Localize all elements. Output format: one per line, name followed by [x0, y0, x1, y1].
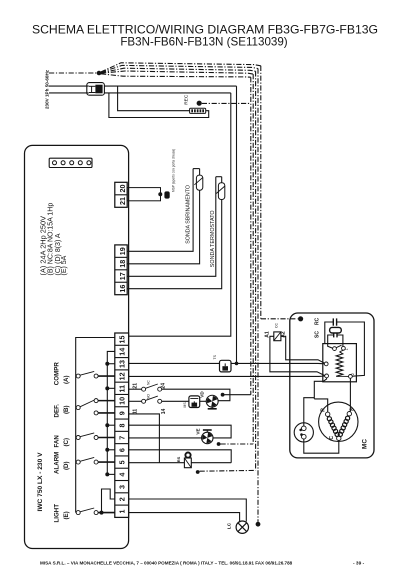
svg-text:DEF.: DEF.	[54, 404, 61, 418]
wire earth bundle line 1 to MC	[101, 63, 261, 72]
defrost heater RS	[184, 458, 191, 468]
connector J1 5-pin	[49, 158, 92, 167]
svg-text:12: 12	[118, 372, 127, 380]
wire earth bundle line 5 to VD	[101, 74, 251, 77]
wire terminal 9 drop to RS	[129, 414, 160, 463]
svg-text:11: 11	[118, 385, 127, 393]
svg-text:17: 17	[118, 272, 127, 280]
aux contact 11-14	[142, 399, 146, 403]
svg-text:10: 10	[118, 397, 127, 405]
svg-text:RC: RC	[315, 317, 321, 325]
svg-text:IWC 750 LX - 230 V: IWC 750 LX - 230 V	[37, 452, 44, 512]
relay terminal 6	[325, 374, 329, 378]
svg-text:6: 6	[118, 448, 127, 452]
node bus2 junction to terminal 4	[105, 472, 109, 476]
svg-text:2: 2	[118, 497, 127, 501]
node bus2 junction to terminal 11	[105, 386, 109, 390]
svg-text:LC: LC	[227, 522, 232, 529]
wire terminal 11 to aux contact 21	[129, 388, 142, 390]
svg-text:ALARM: ALARM	[54, 452, 61, 474]
svg-text:14: 14	[161, 409, 167, 415]
svg-text:8: 8	[118, 424, 127, 428]
svg-text:VD: VD	[200, 391, 205, 398]
svg-text:5: 5	[118, 460, 127, 464]
svg-text:1: 1	[118, 510, 127, 514]
wire MS to fan VD	[200, 400, 207, 402]
node fan VD earth stud	[221, 393, 225, 397]
svg-text:SONDA TERMOSTATO: SONDA TERMOSTATO	[210, 210, 216, 267]
svg-text:COMPR: COMPR	[54, 362, 61, 386]
node REC earth stud	[197, 101, 202, 106]
aux contact 21-24	[142, 387, 146, 391]
svg-text:NO: NO	[147, 394, 151, 399]
start relay KR box	[323, 344, 357, 382]
wire earth branch RS	[200, 469, 256, 472]
svg-text:1: 1	[345, 348, 349, 350]
resistor REC condensate heater	[190, 108, 206, 113]
svg-text:MC: MC	[362, 439, 369, 449]
svg-text:FB3N-FB6N-FB13N (SE113039): FB3N-FB6N-FB13N (SE113039)	[120, 36, 287, 49]
svg-text:FAN: FAN	[54, 435, 61, 448]
wire coil A2 leg	[281, 336, 325, 363]
defrost heater RS thermal fuse ring	[185, 453, 190, 458]
relay contact terminals	[333, 347, 337, 351]
node bus2 junction to terminal 6	[105, 448, 109, 452]
relay terminal 2	[349, 375, 353, 379]
relay contact ALARM (D)	[76, 460, 80, 464]
svg-text:S: S	[349, 407, 355, 411]
fan motor VD	[206, 395, 218, 407]
winding S-C	[345, 416, 349, 420]
wire terminal 18 to probe	[127, 190, 199, 264]
svg-text:16: 16	[118, 285, 127, 293]
wire mains L to right	[104, 85, 236, 87]
svg-text:(B): (B)	[63, 405, 70, 414]
svg-text:TS: TS	[213, 354, 217, 359]
node MC earth stud	[298, 316, 303, 321]
capacitor RC	[332, 318, 334, 325]
svg-text:LIGHT: LIGHT	[54, 504, 61, 523]
svg-text:NC: NC	[147, 380, 151, 385]
relay contact COMPR (A)	[76, 374, 80, 378]
svg-text:2: 2	[351, 373, 355, 375]
svg-text:18: 18	[118, 260, 127, 268]
svg-text:(E) 5A: (E) 5A	[61, 255, 68, 275]
winding R-C	[327, 417, 331, 421]
wire earth bundle line 3 to RS	[101, 68, 256, 73]
node RS earth stud	[196, 470, 200, 474]
node light contact junction	[100, 511, 104, 515]
svg-text:MS: MS	[183, 402, 187, 408]
wire terminal 13 to start relay	[129, 362, 220, 364]
svg-text:9: 9	[118, 411, 127, 415]
wire earth bundle line 4 to VE	[101, 71, 253, 74]
node mains L junction	[235, 362, 239, 366]
svg-text:230V 1Ph 50-60Hz: 230V 1Ph 50-60Hz	[45, 69, 50, 109]
fan VE stand	[206, 430, 208, 432]
svg-text:MISA S.R.L. – VIA MONACHELLE: MISA S.R.L. – VIA MONACHELLE VECCHIA, 7 …	[40, 561, 293, 566]
probe SONDA TERMOSTATO thermistor	[216, 176, 222, 178]
wire RS bottom	[129, 462, 232, 464]
wire SC right to relay	[337, 335, 343, 346]
door microswitch MSP cable bar	[127, 188, 160, 201]
svg-text:MSP (aperto con porta chiusa): MSP (aperto con porta chiusa)	[171, 149, 175, 192]
node earth bundle end stud	[256, 522, 261, 527]
wire relay 2 to S winding	[349, 378, 351, 411]
svg-text:REC: REC	[183, 94, 189, 105]
wire mains N to right	[104, 92, 230, 94]
wire earth from mains	[49, 72, 99, 74]
svg-text:- 39 -: - 39 -	[353, 561, 365, 567]
node bus2 junction to terminal 8	[105, 423, 109, 427]
wire overload to C winding	[304, 439, 339, 453]
svg-text:4: 4	[118, 473, 127, 477]
svg-text:(A) 24A 2Hp 250V: (A) 24A 2Hp 250V	[38, 216, 47, 276]
wire aux 24 to fan VD loop	[162, 389, 230, 401]
wire light junction to terminal 2	[102, 489, 115, 513]
wire branch L down to heater	[118, 86, 190, 111]
wire terminal 16 to probe	[127, 200, 222, 289]
svg-text:21: 21	[118, 197, 127, 205]
terminal block 16-17-18-19	[115, 245, 127, 295]
svg-text:SC: SC	[315, 331, 321, 338]
svg-text:(E): (E)	[63, 511, 70, 519]
svg-text:11: 11	[132, 409, 138, 415]
wire terminal 1 to lamp	[129, 513, 240, 523]
node bus2 junction to terminal 13	[105, 362, 109, 366]
capacitor SC electrolytic can	[330, 327, 342, 333]
wire aux 14 to capacitor MS	[162, 400, 189, 402]
wire terminal 8 fan VE loop	[129, 425, 232, 438]
compressor motor windings	[319, 402, 358, 441]
thermal switch TS on compressor line	[220, 360, 232, 372]
wire terminal 10 to aux contact 11	[129, 400, 142, 402]
relay contact DEF (B) changeover	[76, 406, 80, 410]
wire terminal 17 to probe	[127, 177, 216, 277]
relay coil zigzag	[336, 352, 343, 377]
svg-text:(C): (C)	[63, 438, 70, 447]
svg-text:15: 15	[118, 335, 127, 343]
svg-text:CC: CC	[274, 323, 278, 328]
svg-text:(B) NC:8A NO:15A 1Hp: (B) NC:8A NO:15A 1Hp	[48, 203, 55, 276]
fan VD stand	[211, 407, 213, 409]
wire terminal 19 to probe	[127, 169, 193, 252]
fan motor VE	[202, 432, 214, 444]
wire terminal 12 to start relay	[129, 375, 319, 377]
relay contact FAN (C)	[76, 435, 80, 439]
svg-text:21: 21	[132, 383, 138, 389]
contactor coil CC A1-A2	[274, 332, 281, 341]
svg-text:(D): (D)	[63, 461, 70, 470]
svg-text:3: 3	[118, 485, 127, 489]
wire terminal 6 RS loop	[129, 450, 232, 463]
terminal strip 1-15	[115, 333, 129, 517]
svg-text:14: 14	[118, 348, 127, 356]
wire earth branch REC	[202, 102, 251, 104]
svg-text:SONDA SBRINAMENTO: SONDA SBRINAMENTO	[185, 185, 191, 244]
wire mains L drop to terminal-13 line	[236, 86, 238, 363]
wire SC left to relay	[328, 335, 334, 348]
wire earth branch MC	[261, 318, 298, 320]
controller IWC 750 LX board outline	[25, 145, 129, 548]
terminal block 20-21	[115, 182, 127, 207]
wire RC left	[325, 322, 334, 344]
relay terminal 5	[324, 362, 328, 366]
node MSP dot	[158, 192, 162, 196]
svg-text:RS: RS	[176, 456, 181, 462]
svg-text:R: R	[321, 408, 327, 412]
wire terminal 2 to lamp	[129, 499, 247, 522]
microswitch MSP body	[165, 192, 170, 198]
capacitor MS fan VD	[189, 396, 200, 408]
probe SONDA SBRINAMENTO thermistor	[193, 168, 200, 170]
wire terminal 7 to fan VE	[129, 437, 202, 439]
wire earth bundle line 2 to bottom stud	[101, 65, 258, 72]
svg-text:20: 20	[118, 185, 127, 193]
svg-text:19: 19	[118, 247, 127, 255]
svg-text:(A): (A)	[63, 375, 70, 384]
svg-text:7: 7	[118, 436, 127, 440]
svg-text:VE: VE	[196, 428, 201, 434]
wire relay to overload and R winding	[314, 378, 326, 399]
relay contact LIGHT (E)	[76, 511, 80, 515]
wire coil A1 leg	[270, 336, 325, 375]
wire mains N	[49, 92, 89, 94]
wire terminal 15 to mains N	[129, 93, 231, 336]
node earth junction	[97, 71, 102, 76]
wire earth branch fan VE	[221, 443, 254, 445]
svg-text:13: 13	[118, 360, 127, 368]
svg-text:SCHEMA ELETTRICO/WIRING DIAGRA: SCHEMA ELETTRICO/WIRING DIAGRAM FB3G-FB7…	[32, 23, 378, 37]
wire bus1 common from terminal 15	[76, 338, 115, 513]
svg-text:C: C	[329, 436, 335, 440]
wire mains L	[49, 85, 89, 87]
svg-text:24: 24	[161, 383, 167, 389]
wire branch N down under heater	[109, 93, 209, 118]
compressor unit MC outline	[290, 313, 374, 458]
plug X1 mains connector	[87, 83, 105, 96]
wire bus2 from terminal 14	[107, 351, 115, 475]
lamp LC	[236, 521, 248, 533]
node fan VE earth stud	[217, 442, 221, 446]
wire RC right to relay 2	[337, 322, 365, 376]
overload protector	[294, 423, 313, 442]
wire earth branch fan VD	[225, 394, 251, 396]
